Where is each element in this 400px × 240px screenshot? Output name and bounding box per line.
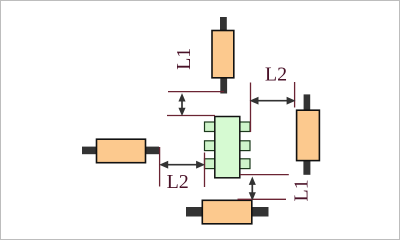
dimension L2 top-right : extension line left (250, 83, 252, 133)
resistor R-bottom (horizontal, below IC) (186, 200, 269, 224)
body (202, 200, 252, 224)
IC U1 (center, green body with pins) (205, 117, 251, 178)
dimension L1 top : extension line lower (167, 115, 215, 117)
body (97, 139, 146, 163)
svg-text:L2: L2 (167, 171, 189, 193)
dimension L2 top-right : double arrow (251, 98, 294, 104)
lead right (145, 147, 159, 155)
dimension L1 top : double arrow (179, 94, 185, 114)
lead right (252, 207, 269, 217)
lead bottom (303, 161, 310, 175)
lead left (82, 147, 97, 155)
pin right 1 (240, 122, 251, 132)
dimension L2 top-right : extension line right (294, 82, 296, 108)
lead top (304, 94, 311, 110)
dimension L2 left-bottom : double arrow (161, 162, 204, 168)
dimension L1 bottom-right : double arrow (250, 178, 256, 200)
pin right 3 (240, 159, 251, 169)
pin left 1 (205, 122, 216, 132)
dimension L2 left-bottom : extension line right (204, 153, 206, 188)
dimension L1 bottom-right : extension line upper (240, 174, 289, 176)
dimension L2 left-bottom : extension line left (159, 147, 161, 187)
body (212, 31, 234, 78)
body (297, 110, 320, 160)
lead left (186, 207, 203, 217)
pin right 2 (240, 141, 251, 151)
lead bottom (220, 78, 227, 94)
pin left 2 (205, 141, 216, 151)
IC body (215, 117, 240, 178)
resistor R-left (horizontal, left of IC) (82, 139, 159, 163)
lead top (220, 17, 227, 31)
dimension L1 bottom-right : extension line lower (238, 198, 287, 200)
resistor R-top (vertical, above IC) (212, 17, 234, 94)
svg-text:L2: L2 (265, 64, 287, 86)
svg-text:L1: L1 (290, 179, 312, 201)
dimension L1 top : extension line upper (168, 91, 224, 93)
pin left 3 (205, 159, 216, 169)
svg-text:L1: L1 (173, 48, 195, 70)
resistor R-right (vertical, right of IC) (297, 94, 320, 174)
